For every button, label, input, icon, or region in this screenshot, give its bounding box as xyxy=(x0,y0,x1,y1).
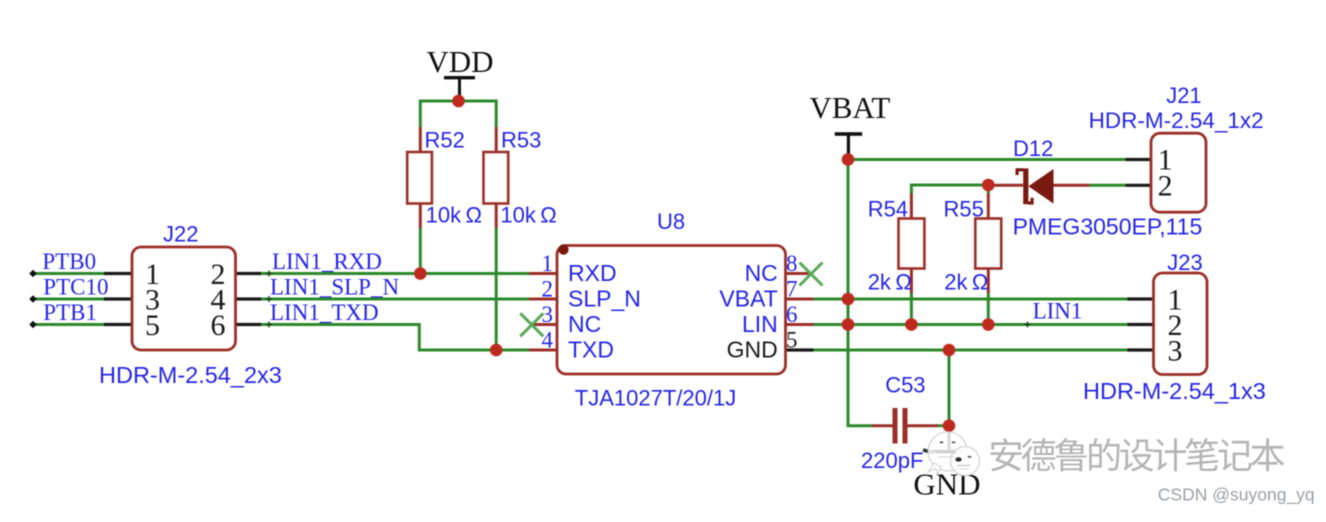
R53 bottom lead xyxy=(495,204,498,230)
C53 right plate xyxy=(903,408,908,444)
VBAT stem xyxy=(847,135,850,160)
junction R52/RXD xyxy=(414,267,427,280)
resistor R52 xyxy=(407,127,482,229)
J23 body xyxy=(1154,273,1208,375)
wire LIN1_RXD row xyxy=(261,272,532,275)
R53 top lead xyxy=(495,127,498,152)
wire C53 right leg xyxy=(938,424,949,427)
svg-text:2k Ω: 2k Ω xyxy=(868,270,912,295)
J23 pin leads 1,2,3 xyxy=(1128,299,1154,350)
no-connect X pin3 xyxy=(520,313,543,336)
R52 body xyxy=(407,152,432,204)
J22 left pin leads 1,3,5 xyxy=(104,274,132,325)
wire-end marker PTB1 xyxy=(29,321,37,328)
wire GND vertical xyxy=(948,350,951,426)
wire-end marker PTC10 xyxy=(29,295,37,302)
wire VBAT vertical xyxy=(847,160,850,426)
wire R52 bottom to RXD row xyxy=(419,228,422,274)
wire R54/R55 top horizontal xyxy=(911,184,988,187)
wire PTB0 xyxy=(33,272,104,275)
svg-text:J23: J23 xyxy=(1167,250,1202,275)
wire R53 bottom to TXD row xyxy=(495,228,498,350)
svg-text:6: 6 xyxy=(211,309,226,342)
svg-text:PTB1: PTB1 xyxy=(43,300,97,325)
svg-text:3: 3 xyxy=(1168,334,1183,367)
watermark text xyxy=(990,438,1286,473)
svg-text:10k Ω: 10k Ω xyxy=(500,202,556,227)
wire LIN1_TXD row with jog xyxy=(261,325,532,351)
junction R55 top / D12 xyxy=(982,179,995,192)
VDD bar xyxy=(444,76,475,79)
no-connect X pin8 xyxy=(800,263,823,286)
wire LIN row pin6 xyxy=(814,323,1128,326)
svg-text:PMEG3050EP,115: PMEG3050EP,115 xyxy=(1013,214,1203,240)
svg-text:R52: R52 xyxy=(425,127,465,152)
resistor R54 xyxy=(868,194,925,295)
R52 top lead xyxy=(419,127,422,152)
U8 right pin leads 8,7,6 xyxy=(786,274,814,325)
GND bar xyxy=(933,450,965,453)
R53 body xyxy=(484,152,509,204)
power GND xyxy=(913,426,980,502)
svg-text:HDR-M-2.54_1x2: HDR-M-2.54_1x2 xyxy=(1089,108,1264,133)
svg-text:2: 2 xyxy=(542,277,554,302)
svg-text:5: 5 xyxy=(145,309,160,342)
svg-text:R54: R54 xyxy=(868,196,908,221)
wire anchor tick LIN1 xyxy=(1025,322,1031,328)
junction GND row xyxy=(943,344,956,357)
wire R55 bottom xyxy=(987,293,990,325)
D12 schottky bottom hook xyxy=(1028,198,1032,203)
wire VDD horizontal xyxy=(420,100,496,103)
R54 bottom lead xyxy=(910,269,913,294)
C53 left plate xyxy=(893,408,898,444)
wire C53 left leg xyxy=(847,424,873,427)
svg-text:PTC10: PTC10 xyxy=(43,275,108,300)
U8 pin 5 lead (GND) xyxy=(786,348,814,351)
C53 right lead xyxy=(908,424,939,427)
svg-text:C53: C53 xyxy=(885,372,925,397)
svg-text:PTB0: PTB0 xyxy=(42,249,96,274)
svg-text:LIN1_SLP_N: LIN1_SLP_N xyxy=(270,275,399,300)
wire LIN1_SLP_N row xyxy=(261,298,532,301)
IC U8 xyxy=(529,209,814,411)
junction R53/TXD xyxy=(490,344,503,357)
svg-text:7: 7 xyxy=(786,277,798,302)
R55 top lead xyxy=(987,194,990,219)
wire GND row pin5 xyxy=(814,349,1128,352)
wire VBAT to J21 pin1 xyxy=(848,158,1126,161)
D12 schottky cathode bar xyxy=(1023,168,1028,204)
connector J22 xyxy=(99,222,282,389)
D12 cathode lead xyxy=(992,184,1023,187)
D12 anode lead xyxy=(1054,184,1090,187)
U8 corner marker dot xyxy=(558,244,568,254)
resistor R55 xyxy=(944,194,1002,295)
svg-text:RXD: RXD xyxy=(568,260,617,286)
svg-text:TXD: TXD xyxy=(568,336,614,362)
svg-text:J21: J21 xyxy=(1166,83,1201,108)
wire R52 top xyxy=(419,100,422,129)
power VDD xyxy=(426,44,493,102)
wire PTB1 xyxy=(33,323,104,326)
R54 top lead xyxy=(910,194,913,219)
wire PTC10 xyxy=(33,298,104,301)
diode D12 xyxy=(992,136,1202,240)
svg-text:GND: GND xyxy=(727,336,778,362)
capacitor C53 xyxy=(861,372,938,473)
connector J21 xyxy=(1089,83,1264,212)
junction LIN/vert xyxy=(842,318,855,331)
svg-text:10k Ω: 10k Ω xyxy=(426,202,482,227)
C53 left lead xyxy=(872,424,893,427)
svg-text:R55: R55 xyxy=(944,196,984,221)
R55 bottom lead xyxy=(987,269,990,294)
svg-text:J22: J22 xyxy=(163,222,198,247)
wire R54 bottom xyxy=(910,293,913,325)
D12 schottky top hook xyxy=(1017,170,1023,175)
wire VBAT row pin7 xyxy=(814,298,1128,301)
svg-text:NC: NC xyxy=(568,311,601,337)
junction VDD node xyxy=(452,95,465,108)
J21 body xyxy=(1151,133,1206,212)
svg-text:LIN: LIN xyxy=(742,311,778,337)
svg-text:NC: NC xyxy=(745,260,778,286)
svg-text:LIN1_RXD: LIN1_RXD xyxy=(272,249,382,274)
R54 body xyxy=(899,219,925,269)
svg-text:2: 2 xyxy=(1158,169,1173,202)
R52 bottom lead xyxy=(419,204,422,230)
U8 left pin leads 1,2,3,4 xyxy=(529,274,557,351)
svg-text:U8: U8 xyxy=(657,209,685,234)
J22 body xyxy=(132,247,236,350)
wire anchor tick SLP_N xyxy=(266,296,272,302)
svg-text:2k Ω: 2k Ω xyxy=(944,270,988,295)
svg-text:LIN1_TXD: LIN1_TXD xyxy=(270,300,379,325)
svg-text:VDD: VDD xyxy=(426,44,493,79)
svg-text:6: 6 xyxy=(786,302,798,327)
D12 triangle xyxy=(1028,169,1053,204)
svg-text:R53: R53 xyxy=(501,127,541,152)
wire anchor tick TXD xyxy=(266,322,272,328)
J21 pin leads 1,2 xyxy=(1126,160,1152,186)
svg-text:CSDN @suyong_yq: CSDN @suyong_yq xyxy=(1158,485,1315,506)
svg-text:TJA1027T/20/1J: TJA1027T/20/1J xyxy=(575,386,736,411)
junction LIN/R55 xyxy=(982,318,995,331)
svg-text:LIN1: LIN1 xyxy=(1033,299,1083,324)
junction C53/GND xyxy=(943,419,956,432)
VDD stem xyxy=(458,79,461,102)
svg-text:HDR-M-2.54_1x3: HDR-M-2.54_1x3 xyxy=(1083,378,1266,404)
wire anchor tick RXD xyxy=(266,271,272,277)
wire D12 to J21 pin2 xyxy=(1090,184,1126,187)
wire R53 top xyxy=(495,100,498,129)
svg-text:VBAT: VBAT xyxy=(809,90,890,125)
svg-text:5: 5 xyxy=(786,328,798,353)
watermark logo xyxy=(923,432,980,476)
U8 body xyxy=(557,246,786,375)
svg-text:HDR-M-2.54_2x3: HDR-M-2.54_2x3 xyxy=(99,362,282,388)
svg-text:4: 4 xyxy=(542,328,554,353)
R55 body xyxy=(975,219,1001,269)
svg-text:SLP_N: SLP_N xyxy=(568,285,641,311)
VBAT bar xyxy=(835,132,863,136)
svg-text:D12: D12 xyxy=(1013,136,1053,161)
junction VBAT row xyxy=(842,293,855,306)
junction VBAT node xyxy=(842,153,855,166)
svg-text:1: 1 xyxy=(542,251,554,276)
wire-end marker PTB0 xyxy=(29,270,37,277)
junction LIN/R54 xyxy=(905,318,918,331)
wire R54 top xyxy=(910,184,913,195)
svg-text:VBAT: VBAT xyxy=(719,285,777,311)
power VBAT xyxy=(809,90,890,160)
resistor R53 xyxy=(484,127,557,229)
J22 right pin leads 2,4,6 xyxy=(236,274,261,325)
svg-text:8: 8 xyxy=(786,251,798,276)
GND stem xyxy=(948,426,951,451)
connector J23 xyxy=(1083,250,1266,404)
wire R55 top stub xyxy=(987,185,990,194)
